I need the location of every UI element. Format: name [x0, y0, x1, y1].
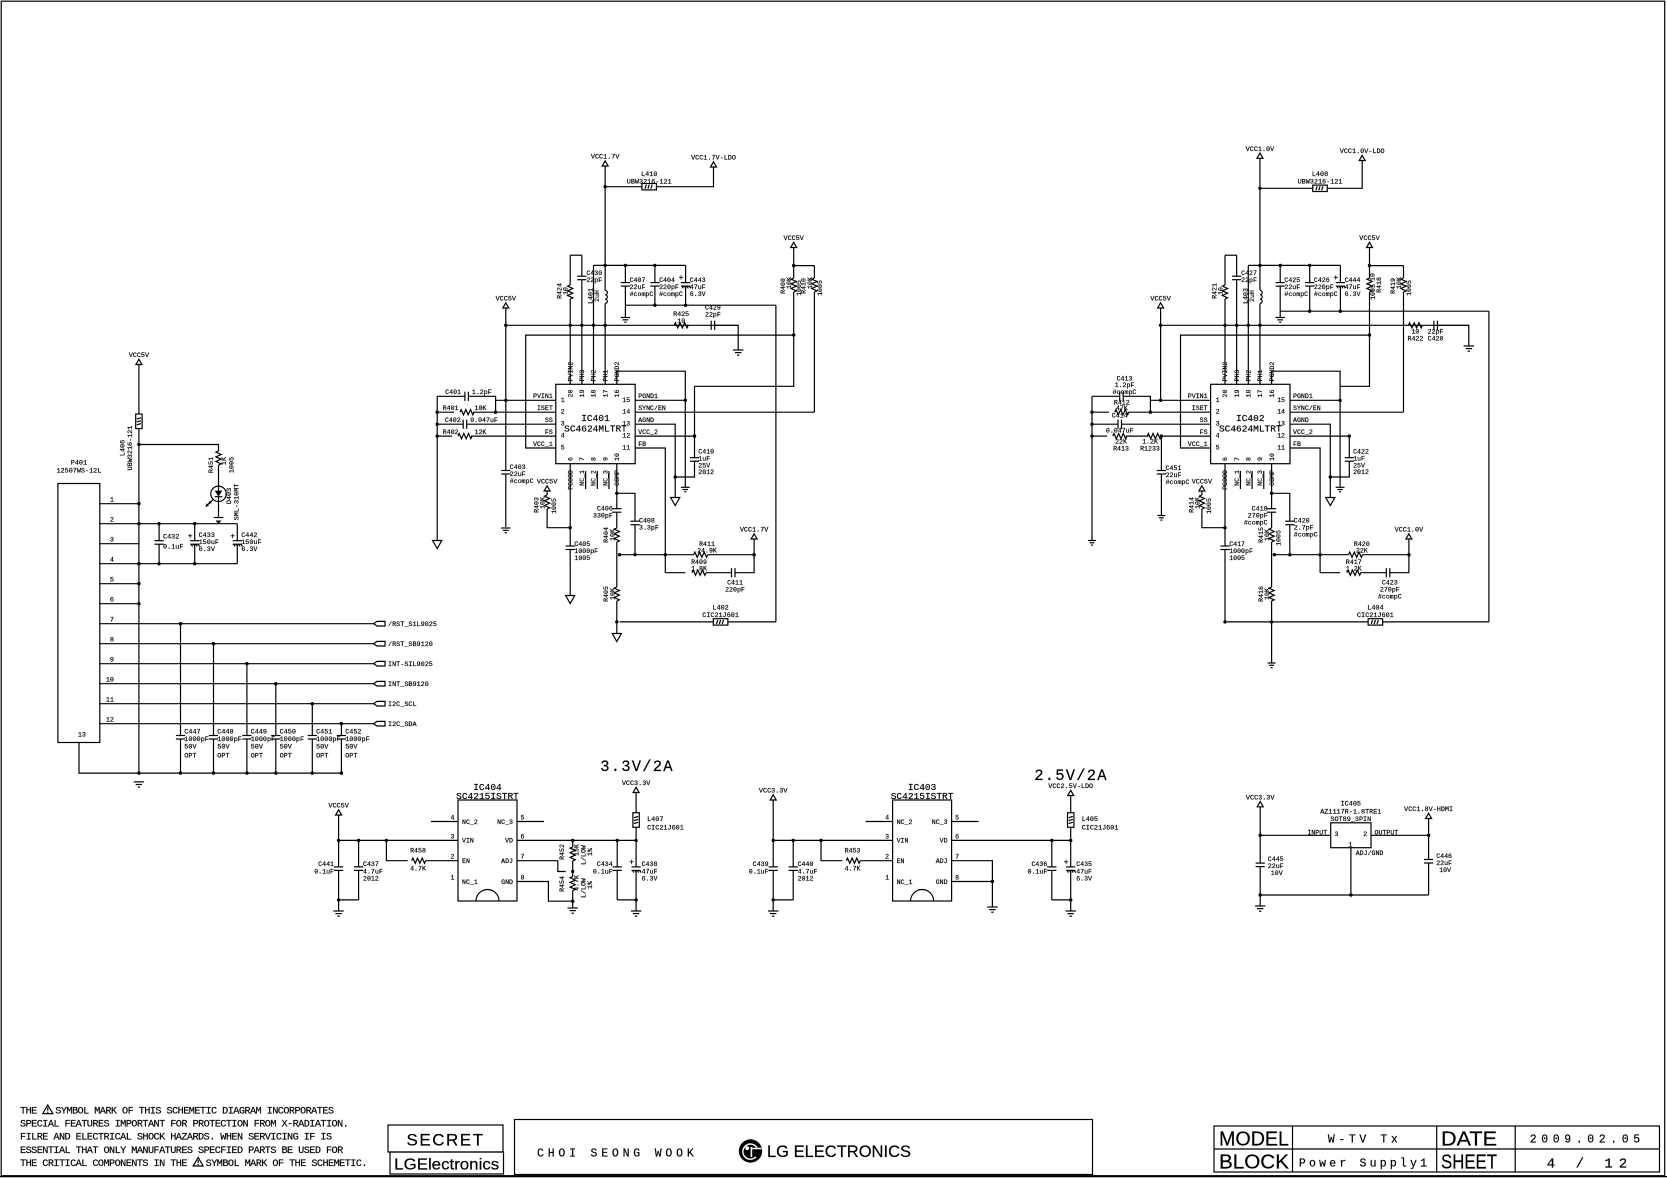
capacitor C418	[1267, 508, 1276, 510]
capacitor C408	[617, 493, 635, 521]
svg-text:2012: 2012	[363, 876, 379, 883]
svg-text:C444: C444	[1345, 277, 1361, 284]
svg-text:OPT: OPT	[251, 753, 263, 761]
svg-text:47uF: 47uF	[1076, 869, 1092, 876]
capacitor C439 0.1uF	[772, 840, 774, 867]
svg-text:6.3V: 6.3V	[199, 546, 216, 554]
svg-text:11: 11	[622, 444, 630, 451]
wire branch	[1370, 265, 1404, 267]
resistor R452 15K	[571, 839, 574, 842]
pin 3 of P401	[100, 543, 139, 545]
wire PGND1 row	[635, 399, 685, 401]
resistor R408	[791, 278, 796, 292]
wire pin2 rail to caps	[139, 523, 237, 525]
svg-text:1: 1	[561, 397, 565, 404]
capacitor C403 22uF	[501, 470, 510, 472]
svg-text:R413: R413	[1113, 446, 1129, 453]
svg-text:12K: 12K	[475, 429, 487, 436]
ground	[733, 349, 743, 351]
svg-text:22uF: 22uF	[1268, 863, 1284, 870]
svg-text:NC_3: NC_3	[932, 819, 948, 826]
svg-text:3: 3	[561, 421, 565, 428]
svg-text:15: 15	[1277, 397, 1285, 404]
svg-text:INT-SIL9025: INT-SIL9025	[388, 661, 433, 669]
svg-text:20: 20	[1222, 390, 1229, 398]
svg-text:220pF: 220pF	[1314, 284, 1334, 291]
svg-text:PH2: PH2	[1246, 370, 1253, 382]
svg-text:ISET: ISET	[1192, 405, 1208, 412]
svg-text:6.3V: 6.3V	[642, 876, 658, 883]
svg-text:3: 3	[885, 833, 889, 840]
svg-text:C411: C411	[727, 580, 743, 587]
svg-text:6: 6	[521, 833, 525, 840]
svg-text:SYNC/EN: SYNC/EN	[638, 405, 666, 412]
wire VCC5V to L406	[138, 365, 140, 415]
wire VD row	[517, 839, 636, 841]
svg-text:R1233: R1233	[1140, 446, 1160, 453]
svg-text:10V: 10V	[1439, 867, 1451, 874]
capacitor C430 22pF	[581, 255, 583, 276]
wire	[1390, 555, 1409, 573]
pin 6 of P401	[100, 603, 139, 605]
svg-text:C402: C402	[445, 417, 461, 424]
svg-text:4: 4	[451, 815, 455, 822]
svg-text:VCC1.7V-LDO: VCC1.7V-LDO	[691, 155, 736, 163]
ground (PGND)	[1336, 486, 1345, 488]
svg-text:6: 6	[110, 597, 114, 605]
resistor R424 10	[568, 285, 573, 299]
svg-text:IC402: IC402	[1236, 413, 1265, 424]
svg-text:47K: 47K	[1116, 405, 1128, 412]
capacitor C407 22uF	[624, 265, 626, 282]
wire signal row I2C_SDA	[139, 723, 374, 725]
LGElectronics box	[390, 1152, 504, 1174]
wire long loop vertical	[1488, 311, 1490, 622]
svg-text:R419: R419	[1390, 278, 1397, 294]
svg-text:C438: C438	[642, 861, 658, 868]
svg-text:FILRE AND ELECTRICAL SHOCK HAZ: FILRE AND ELECTRICAL SHOCK HAZARDS. WHEN…	[20, 1133, 332, 1144]
svg-text:MODEL: MODEL	[1219, 1129, 1289, 1151]
svg-text:13: 13	[622, 421, 630, 428]
capacitor C406	[612, 508, 621, 510]
svg-text:1.2K: 1.2K	[1142, 439, 1158, 446]
power symbol VCC3.3V	[633, 787, 639, 792]
svg-text:220pF: 220pF	[725, 587, 745, 594]
capacitor C429 22pF	[710, 321, 712, 330]
svg-text:0.1uF: 0.1uF	[749, 869, 769, 876]
svg-text:C428: C428	[1428, 336, 1444, 343]
wire left bus	[1091, 396, 1093, 540]
wire VCC5V rail	[506, 324, 738, 326]
resistor R404	[614, 528, 619, 542]
svg-text:CIC21J601: CIC21J601	[1082, 825, 1119, 833]
svg-text:7: 7	[110, 617, 114, 625]
wire signal row /RST_S1L9025	[139, 623, 374, 625]
svg-text:THE CRITICAL COMPONENTS IN THE: THE CRITICAL COMPONENTS IN THE	[20, 1159, 187, 1170]
flag /RST_S1L9025	[374, 621, 385, 626]
svg-text:50V: 50V	[316, 744, 329, 752]
svg-text:18: 18	[591, 390, 598, 398]
svg-text:1005: 1005	[1229, 555, 1245, 562]
svg-text:SC4215ISTRT: SC4215ISTRT	[456, 791, 519, 802]
ground	[338, 900, 340, 911]
svg-text:C451: C451	[1166, 465, 1182, 472]
svg-text:SS: SS	[1200, 417, 1208, 424]
wire VCC output vertical	[604, 166, 606, 290]
svg-text:NC_3: NC_3	[497, 819, 513, 826]
svg-text:VCC5V: VCC5V	[1150, 296, 1171, 304]
svg-text:VIN: VIN	[462, 838, 474, 845]
svg-text:SC4624MLTRT: SC4624MLTRT	[564, 424, 627, 435]
flag INT-SIL9025	[374, 661, 385, 666]
svg-text:22K: 22K	[1115, 439, 1127, 446]
gnd bus under bypass caps	[139, 772, 342, 774]
svg-text:5: 5	[561, 444, 565, 451]
power symbol VCC5V (P401 area)	[136, 359, 142, 364]
pin 5 of P401	[100, 583, 139, 585]
svg-text:2012: 2012	[1353, 469, 1369, 476]
svg-text:8: 8	[955, 875, 959, 882]
wire D403 cathode to rail	[218, 502, 220, 517]
ground stub below cap rail	[624, 305, 626, 317]
svg-text:2uH: 2uH	[594, 290, 601, 302]
wire	[616, 555, 618, 587]
wire pin4 rail under caps	[139, 563, 237, 565]
svg-text:50V: 50V	[217, 744, 230, 752]
svg-text:0.1uF: 0.1uF	[163, 544, 183, 552]
wire upper cap rail	[594, 264, 686, 266]
wire to SYNC/EN row	[1403, 292, 1405, 412]
capacitor C443 47uF	[685, 265, 687, 282]
svg-text:8: 8	[1246, 457, 1253, 461]
wire VCC5V rail	[1161, 324, 1469, 326]
svg-text:VCC_1: VCC_1	[533, 441, 553, 448]
svg-text:EN: EN	[462, 858, 470, 865]
wire long loop vertical	[775, 305, 777, 622]
svg-text:+: +	[629, 859, 634, 868]
svg-text:8: 8	[110, 637, 114, 645]
wire step row	[695, 335, 794, 386]
svg-text:22uF: 22uF	[1284, 284, 1300, 291]
svg-text:UBW3216-121: UBW3216-121	[127, 426, 135, 471]
svg-text:9: 9	[602, 457, 609, 461]
flag I2C_SCL	[374, 701, 385, 706]
svg-text:VCC3.3V: VCC3.3V	[1246, 794, 1275, 802]
pin 9 of P401	[100, 663, 139, 665]
capacitor C448 1000pF	[213, 644, 215, 736]
svg-text:W-TV Tx: W-TV Tx	[1328, 1134, 1402, 1147]
wire LDO branch	[605, 186, 642, 188]
ground (P401 area)	[137, 771, 140, 774]
capacitor C401	[437, 395, 465, 397]
pin 4 of P401	[100, 563, 139, 565]
svg-text:10: 10	[1218, 287, 1225, 295]
svg-text:10: 10	[1411, 329, 1419, 336]
regulator IC IC403	[893, 800, 952, 901]
ground	[1157, 515, 1165, 517]
svg-text:4 / 12: 4 / 12	[1547, 1157, 1633, 1173]
svg-text:COMP: COMP	[614, 470, 621, 486]
svg-text:4.7K: 4.7K	[410, 866, 426, 873]
wire signal row INT_SB9120	[139, 683, 374, 685]
ground	[568, 907, 578, 909]
power symbol VCC3.3V	[770, 795, 776, 800]
svg-text:VCC1.7V: VCC1.7V	[740, 527, 769, 535]
svg-text:PH1: PH1	[1257, 370, 1264, 382]
svg-text:ESSENTIAL THAT ONLY MANUFATURE: ESSENTIAL THAT ONLY MANUFATURES SPECFIED…	[20, 1146, 343, 1157]
svg-text:10K: 10K	[540, 497, 547, 509]
svg-text:#compC: #compC	[630, 291, 654, 298]
svg-text:20: 20	[567, 390, 574, 398]
capacitor C428 22pF	[1433, 321, 1435, 330]
wire upper cap rail	[1248, 264, 1340, 266]
ground	[1464, 345, 1474, 347]
pin 11 of P401	[100, 703, 139, 705]
svg-text:2.7pF: 2.7pF	[1294, 525, 1314, 532]
svg-text:3: 3	[110, 537, 114, 545]
svg-text:50V: 50V	[280, 744, 293, 752]
wire	[547, 509, 570, 528]
power symbol VCC5V	[336, 810, 342, 815]
svg-text:1: 1	[451, 875, 455, 882]
svg-text:NC_1: NC_1	[897, 879, 913, 886]
svg-text:ADJ/GND: ADJ/GND	[1356, 850, 1384, 857]
svg-text:Power Supply1: Power Supply1	[1299, 1158, 1430, 1171]
svg-text:C408: C408	[639, 518, 655, 525]
capacitor C441 0.1uF	[338, 840, 340, 867]
wire GND row	[952, 881, 993, 883]
svg-text:VCC3.3V: VCC3.3V	[759, 788, 788, 796]
capacitor C435 47uF	[1070, 840, 1072, 867]
svg-text:CIC21J601: CIC21J601	[647, 825, 684, 833]
svg-text:+: +	[1064, 859, 1069, 868]
svg-text:12507WS-12L: 12507WS-12L	[56, 468, 101, 476]
converter IC IC402	[1211, 384, 1290, 463]
power symbol VCC1.0V	[1257, 153, 1263, 158]
svg-text:0.047uF: 0.047uF	[1106, 427, 1134, 434]
wire cap bottoms	[1052, 899, 1071, 901]
capacitor C410 1uF	[694, 436, 696, 458]
svg-text:OPT: OPT	[217, 753, 229, 761]
pin stub NC_3	[517, 821, 544, 823]
svg-text:CIC21J601: CIC21J601	[702, 612, 739, 620]
svg-text:5: 5	[955, 815, 959, 822]
svg-text:1: 1	[885, 875, 889, 882]
wire FB row	[1290, 448, 1320, 573]
svg-text:C426: C426	[1314, 277, 1330, 284]
svg-text:C422: C422	[1353, 449, 1369, 456]
power symbol VCC5V	[503, 303, 509, 308]
wire pin1 row	[496, 399, 556, 401]
wire step row	[1340, 335, 1369, 386]
svg-text:R451: R451	[208, 457, 216, 473]
wire	[1271, 555, 1273, 587]
resistor R453 4.7K	[821, 840, 842, 860]
LED D403	[211, 486, 226, 501]
wire PH2 column	[1247, 265, 1249, 384]
svg-text:22pF: 22pF	[1428, 329, 1444, 336]
capacitor C425 22uF	[1279, 265, 1281, 282]
svg-text:7: 7	[1234, 457, 1241, 461]
inductor L410	[642, 184, 657, 190]
wire VCC_2 row	[635, 435, 694, 437]
wire VCC5V trunk	[138, 429, 140, 773]
svg-text:1000pF: 1000pF	[574, 548, 598, 555]
capacitor C417 1000pF	[1220, 545, 1229, 547]
wire bridge top	[570, 254, 582, 256]
power symbol VCC3.3V (IC405)	[1257, 802, 1263, 807]
wire GND row	[517, 882, 573, 902]
svg-text:CHOI SEONG WOOK: CHOI SEONG WOOK	[537, 1148, 698, 1161]
svg-text:VCC1.0V: VCC1.0V	[1246, 146, 1275, 154]
wire cap bottoms	[617, 899, 636, 901]
wire left bus	[436, 396, 438, 540]
ground	[501, 527, 510, 529]
wire ADJ	[517, 861, 566, 872]
svg-text:#compC: #compC	[1166, 479, 1190, 486]
capacitor C411	[706, 572, 732, 574]
LG logo	[739, 1139, 762, 1162]
svg-text:5: 5	[521, 815, 525, 822]
resistor R454 4.7K	[570, 877, 575, 891]
svg-text:3: 3	[1335, 831, 1339, 838]
power symbol VCC5V	[1158, 303, 1164, 308]
svg-text:50V: 50V	[251, 744, 264, 752]
analog ground triangle	[1326, 498, 1335, 506]
ground (left bus)	[1088, 540, 1096, 542]
svg-text:10: 10	[614, 453, 621, 461]
svg-text:24.9K: 24.9K	[697, 548, 717, 555]
svg-text:C406: C406	[597, 506, 613, 513]
svg-text:270pF: 270pF	[1248, 513, 1268, 520]
wire ADJ to GND	[952, 861, 993, 882]
svg-text:+: +	[188, 532, 193, 541]
svg-text:VD: VD	[505, 838, 513, 845]
svg-text:2: 2	[885, 854, 889, 861]
svg-text:SECRET: SECRET	[407, 1131, 485, 1150]
analog ground triangle	[671, 498, 680, 506]
svg-text:1: 1	[1216, 397, 1220, 404]
wire	[1202, 509, 1225, 528]
ground	[635, 900, 637, 911]
svg-text:R454: R454	[559, 876, 566, 892]
pin 2 of P401	[100, 523, 139, 525]
svg-text:22uF: 22uF	[1166, 472, 1182, 479]
svg-text:ADJ: ADJ	[936, 858, 948, 865]
svg-text:PGOOD: PGOOD	[567, 470, 574, 490]
capacitor C405 1000pF	[566, 545, 575, 547]
svg-text:12: 12	[1277, 433, 1285, 440]
svg-text:NC_1: NC_1	[462, 879, 478, 886]
capacitor C442	[236, 524, 238, 541]
svg-text:C434: C434	[597, 861, 613, 868]
wire PGOOD column	[1224, 464, 1226, 546]
svg-text:VD: VD	[940, 838, 948, 845]
svg-text:22pF: 22pF	[586, 277, 602, 284]
svg-text:C430: C430	[586, 270, 602, 277]
svg-text:9: 9	[110, 657, 114, 665]
svg-text:R418: R418	[1376, 277, 1383, 293]
svg-text:17: 17	[1257, 390, 1264, 398]
wire branch	[794, 265, 815, 267]
title block table	[1214, 1126, 1660, 1172]
power symbol VCC1.7V-LDO	[711, 162, 717, 167]
svg-text:ADJ: ADJ	[501, 858, 513, 865]
svg-text:47uF: 47uF	[1345, 284, 1361, 291]
svg-text:C437: C437	[363, 861, 379, 868]
svg-text:2: 2	[451, 854, 455, 861]
svg-text:4.7uF: 4.7uF	[363, 869, 383, 876]
svg-text:4: 4	[110, 557, 114, 565]
svg-text:C432: C432	[163, 534, 179, 542]
junction dots on VCC5V trunk	[137, 502, 140, 505]
pin 10 of P401	[100, 683, 139, 685]
svg-text:1005: 1005	[551, 498, 558, 514]
svg-text:8: 8	[591, 457, 598, 461]
svg-text:18: 18	[1246, 390, 1253, 398]
svg-text:VIN: VIN	[897, 838, 909, 845]
wire PVIN2 column	[569, 299, 571, 384]
svg-text:NC_3: NC_3	[602, 470, 609, 486]
svg-text:C445: C445	[1268, 856, 1284, 863]
svg-text:R452: R452	[559, 844, 566, 860]
resistor R420	[1274, 554, 1348, 556]
svg-text:C446: C446	[1436, 853, 1452, 860]
svg-text:270pF: 270pF	[1380, 587, 1400, 594]
svg-text:VCC1.8V-HDMI: VCC1.8V-HDMI	[1404, 806, 1453, 814]
wire signal row INT-SIL9025	[139, 663, 374, 665]
svg-text:10K: 10K	[1264, 588, 1271, 600]
resistor R418	[1367, 278, 1372, 292]
ground stub below cap rail	[1279, 311, 1281, 317]
svg-text:10: 10	[677, 318, 685, 325]
resistor R1233	[1147, 434, 1161, 439]
svg-text:7: 7	[521, 854, 525, 861]
svg-text:SHEET: SHEET	[1441, 1152, 1497, 1174]
svg-text:BLOCK: BLOCK	[1219, 1152, 1290, 1174]
svg-text:NC_2: NC_2	[591, 470, 598, 486]
svg-text:SC4624MLTRT: SC4624MLTRT	[1219, 424, 1282, 435]
capacitor C423	[1361, 572, 1387, 574]
svg-text:19: 19	[1234, 390, 1241, 398]
resistor R416	[1269, 587, 1274, 601]
svg-text:5: 5	[1216, 444, 1220, 451]
svg-text:C405: C405	[574, 541, 590, 548]
resistor R403	[546, 491, 548, 495]
connector P401	[58, 484, 100, 743]
inductor L404	[1225, 621, 1368, 623]
svg-text:PH3: PH3	[579, 370, 586, 382]
svg-text:THE: THE	[20, 1107, 37, 1118]
svg-text:1005: 1005	[1206, 498, 1213, 514]
svg-text:UBW3216-121: UBW3216-121	[1298, 178, 1343, 186]
wire SYNC/EN row	[1290, 411, 1404, 413]
power symbol VCC1.0V-LDO	[1359, 155, 1365, 160]
svg-text:R422: R422	[1407, 336, 1423, 343]
svg-text:0.1uF: 0.1uF	[314, 869, 334, 876]
capacitor C422 1uF	[1348, 436, 1350, 458]
wire branch to R451	[139, 445, 219, 452]
svg-text:SC4215ISTRT: SC4215ISTRT	[891, 791, 954, 802]
svg-text:VCC1.0V-LDO: VCC1.0V-LDO	[1340, 148, 1385, 156]
svg-text:C427: C427	[1241, 270, 1257, 277]
svg-text:C401: C401	[445, 389, 461, 396]
capacitor C413	[1092, 395, 1120, 397]
svg-text:10K: 10K	[609, 588, 616, 600]
wire PGOOD column	[569, 464, 571, 546]
svg-text:C423: C423	[1382, 580, 1398, 587]
svg-text:6.3V: 6.3V	[690, 291, 706, 298]
